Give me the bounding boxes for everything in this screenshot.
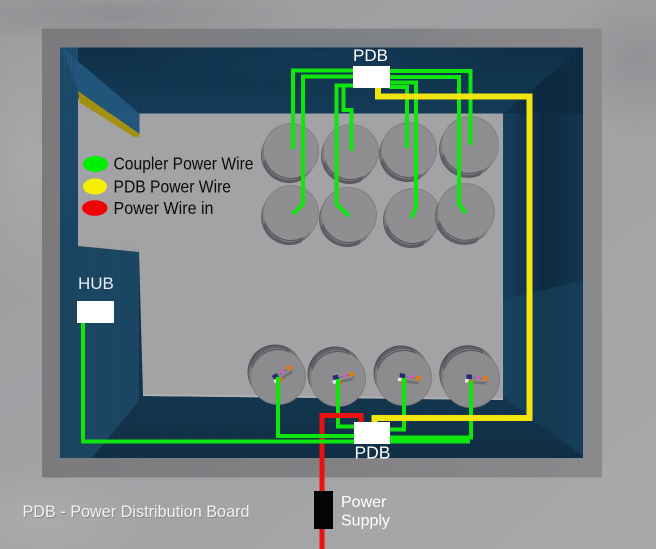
green wire PDB1 to r1c3 — [389, 87, 407, 148]
HUB alcove wall band — [60, 246, 139, 458]
red power-in wire — [322, 416, 361, 549]
svg-text:PDB: PDB — [355, 443, 391, 463]
svg-text:PDB Power Wire: PDB Power Wire — [114, 176, 232, 196]
green wire PDB1 to r2c4 — [389, 77, 466, 213]
green wire b3 to PDB2 right — [390, 378, 404, 430]
coupler cylinder r2c2 — [319, 188, 377, 247]
green wire PDB1 to r2c3 — [389, 83, 416, 219]
enclosure interior base (navy) — [60, 48, 583, 459]
coupler cylinder r2c3 — [383, 189, 441, 248]
top-right corner seam shade — [503, 48, 583, 114]
svg-text:Supply: Supply — [341, 513, 390, 530]
right wall face — [503, 48, 583, 459]
green wire PDB1 to r1c4 — [389, 71, 471, 145]
coupler cylinder r2c1 — [261, 186, 319, 245]
motor detail b1 — [271, 364, 295, 385]
legend swatch power in (red) — [82, 200, 108, 216]
corner rim wall face (teal) — [62, 48, 140, 135]
coupler cylinder r2c4 — [435, 184, 494, 245]
surface grain on walls — [60, 48, 583, 114]
motor cylinder b1 — [248, 345, 306, 405]
right wall lower lighter area — [503, 280, 583, 456]
yellow PDB power wire — [375, 88, 530, 423]
motor detail b2 — [331, 371, 355, 386]
green wire PDB1 to r2c2 — [337, 86, 355, 217]
svg-text:Power: Power — [341, 494, 387, 511]
green wire b2 to PDB2 left — [338, 379, 356, 427]
svg-text:PDB - Power Distribution Board: PDB - Power Distribution Board — [23, 502, 250, 521]
motor detail b4 — [465, 374, 488, 386]
green wire HUB to PDB2 — [83, 323, 470, 442]
power supply block — [314, 491, 333, 529]
svg-text:PDB: PDB — [353, 46, 388, 65]
green wire b1 to PDB2 left — [278, 377, 356, 436]
floor plate (grey) — [78, 114, 503, 401]
motor cylinder b3 — [374, 346, 432, 406]
green wire PDB1 to r2c1 — [293, 77, 354, 215]
PDB board bottom (white box) — [354, 422, 390, 444]
wall tone patches — [130, 25, 510, 85]
outer grey frame of enclosure — [0, 20, 90, 300]
left wall strip — [60, 48, 78, 459]
svg-text:Power Wire in: Power Wire in — [114, 198, 214, 218]
svg-text:HUB: HUB — [78, 274, 114, 293]
HUB box — [77, 301, 114, 323]
coupler cylinder r1c4 — [439, 117, 498, 178]
top wall face — [62, 48, 583, 114]
corner rim edge (olive) — [78, 91, 140, 137]
motor detail b3 — [397, 373, 421, 386]
coupler cylinder r1c1 — [261, 124, 319, 183]
coupler cylinder r1c3 — [379, 123, 437, 182]
svg-text:Coupler Power Wire: Coupler Power Wire — [114, 154, 254, 174]
green wire PDB1 to r1c2 — [344, 87, 352, 151]
motor cylinder b2 — [308, 347, 366, 407]
motor cylinder b4 — [439, 345, 499, 407]
legend swatch pdb (yellow) — [83, 179, 107, 195]
floor plate corner piece under rim — [78, 98, 140, 137]
legend swatch coupler (green) — [83, 156, 108, 172]
bottom wall face — [92, 396, 583, 458]
plate bottom edge highlight — [143, 394, 503, 400]
coupler cylinder r1c2 — [321, 125, 379, 184]
green wire PDB1 to r1c1 — [293, 71, 354, 150]
green wire b4 to PDB2 right — [390, 381, 471, 438]
PDB board top (white box) — [353, 66, 390, 88]
